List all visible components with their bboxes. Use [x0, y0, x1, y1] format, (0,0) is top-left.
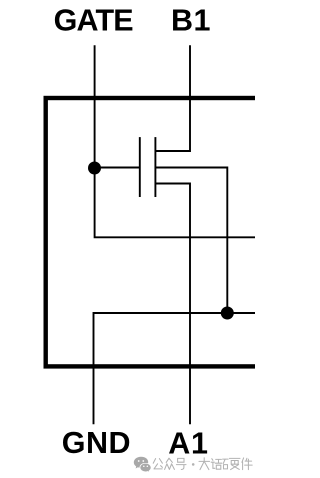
- svg-text:GND: GND: [62, 426, 131, 460]
- svg-text:B1: B1: [171, 3, 211, 37]
- svg-text:GATE: GATE: [54, 3, 134, 37]
- svg-text:A1: A1: [168, 426, 209, 460]
